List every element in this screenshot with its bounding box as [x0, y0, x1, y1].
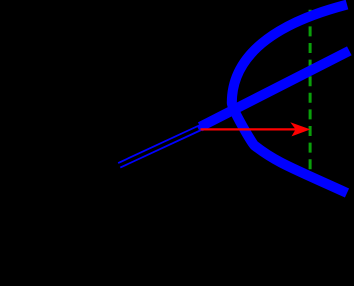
- stable straight branch (thick blue line): [200, 51, 349, 127]
- parabola branch (thick blue curve): [232, 5, 347, 193]
- red arrow head: [290, 122, 310, 136]
- green dashed vertical line (parameter value marker): [309, 10, 312, 173]
- unstable branch hollow core (black): [116, 129, 198, 167]
- unstable branch (hollow double line) outer stroke: [119, 127, 202, 165]
- red arrow shaft: [201, 128, 297, 130]
